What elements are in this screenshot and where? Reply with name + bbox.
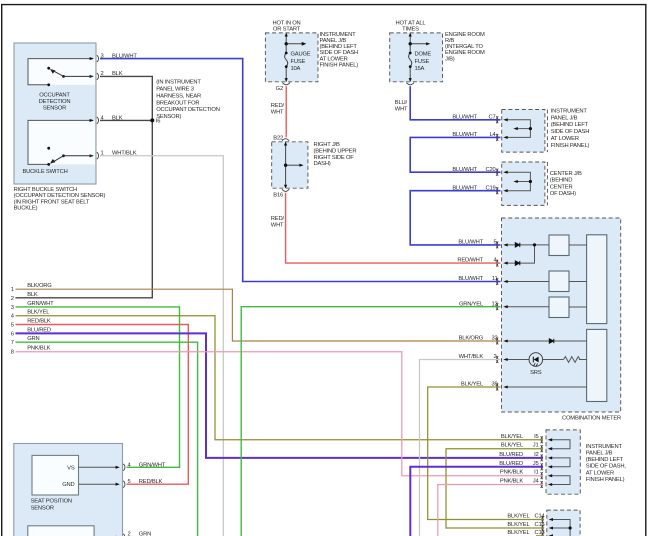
svg-text:RIGHT SIDE OF: RIGHT SIDE OF (314, 155, 355, 161)
connector G2 arc (282, 83, 290, 85)
svg-text:7: 7 (11, 340, 14, 346)
svg-text:HOT IN ON: HOT IN ON (272, 20, 300, 26)
svg-text:BLK/ORG: BLK/ORG (27, 283, 52, 289)
connector arcs C20 C19 (496, 169, 498, 194)
buckle switch contacts (28, 120, 93, 164)
connector arcs I5..J4 (541, 436, 543, 488)
svg-text:G2: G2 (276, 86, 283, 92)
svg-text:(IN RIGHT FRONT SEAT BELT: (IN RIGHT FRONT SEAT BELT (14, 199, 90, 205)
svg-text:BLU/WHT: BLU/WHT (452, 185, 477, 191)
svg-text:PNK/BLK: PNK/BLK (500, 470, 523, 476)
svg-text:C14: C14 (534, 514, 545, 520)
svg-text:3: 3 (101, 53, 104, 59)
svg-text:SIDE OF DASH: SIDE OF DASH (320, 50, 359, 56)
svg-text:BLU/WHT: BLU/WHT (452, 132, 477, 138)
svg-text:SIDE OF DASH,: SIDE OF DASH, (586, 464, 627, 470)
wire RED/BLK left5 to seat sensor GND (16, 325, 189, 485)
svg-text:2: 2 (493, 354, 496, 360)
svg-text:WHT: WHT (271, 109, 284, 115)
svg-text:(BEHIND LEFT: (BEHIND LEFT (586, 457, 624, 463)
occupant detection sensor switch (28, 59, 93, 85)
svg-text:8: 8 (11, 350, 14, 356)
svg-text:HARNESS, NEAR: HARNESS, NEAR (156, 93, 201, 99)
svg-text:SEAT POSITION: SEAT POSITION (31, 499, 72, 505)
svg-text:WHT/BLK: WHT/BLK (112, 151, 137, 157)
svg-text:1: 1 (11, 287, 14, 293)
svg-text:INSTRUMENT: INSTRUMENT (320, 32, 357, 38)
VS output arrow (79, 466, 120, 469)
center J/B box C20 C19 (502, 162, 545, 205)
svg-text:INSTRUMENT: INSTRUMENT (586, 444, 623, 450)
connector arcs pins 3 2 4 1 (97, 55, 99, 159)
svg-text:DOME: DOME (415, 52, 432, 58)
svg-text:ENGINE ROOM: ENGINE ROOM (445, 32, 485, 38)
connector B16 arc (282, 189, 289, 191)
svg-text:I5: I5 (534, 434, 538, 440)
connector arcs C14 C15 C13 (541, 516, 543, 536)
svg-text:SENSOR: SENSOR (31, 505, 54, 511)
wire WHT/BLK meter pin2 down (420, 360, 501, 536)
svg-text:(BEHIND: (BEHIND (550, 178, 572, 184)
svg-text:SENSOR: SENSOR (43, 105, 66, 111)
meter internal block 1 (549, 235, 569, 256)
GND output arrow (79, 483, 120, 486)
svg-text:CENTER J/B: CENTER J/B (550, 171, 582, 177)
svg-text:BLU/WHT: BLU/WHT (112, 53, 137, 59)
wire BLK/YEL meter pin39 to C14 (428, 387, 545, 520)
svg-text:10A: 10A (291, 66, 301, 72)
svg-text:BLK/YEL: BLK/YEL (501, 434, 524, 440)
svg-text:B16: B16 (273, 193, 283, 199)
svg-text:RED/BLK: RED/BLK (139, 479, 163, 485)
svg-text:BLK/YEL: BLK/YEL (501, 443, 524, 449)
svg-text:J/B): J/B) (445, 56, 455, 62)
svg-text:5: 5 (11, 323, 14, 329)
svg-text:SRS: SRS (530, 370, 542, 376)
svg-text:GRN: GRN (139, 532, 151, 536)
wire PNK/BLK J4 down (438, 485, 543, 536)
wire BLU/RED J5 down (410, 467, 543, 536)
svg-text:BLU/WHT: BLU/WHT (458, 240, 483, 246)
meter big block upper (587, 235, 607, 324)
svg-text:I1: I1 (534, 470, 538, 476)
junction node pin5/pin4 (533, 243, 536, 246)
svg-text:FINISH PANEL): FINISH PANEL) (320, 62, 359, 68)
svg-text:BLU/: BLU/ (395, 100, 408, 106)
svg-text:RED/WHT: RED/WHT (457, 258, 483, 264)
svg-text:1: 1 (101, 151, 104, 157)
svg-text:PANEL J/B: PANEL J/B (320, 38, 347, 44)
svg-text:BLU/WHT: BLU/WHT (452, 114, 477, 120)
svg-text:GAUGE: GAUGE (291, 52, 311, 58)
C7 L4 internals (506, 120, 531, 138)
connector B22 arc (282, 139, 289, 141)
svg-text:PNK/BLK: PNK/BLK (27, 346, 50, 352)
wire GRN/WHT left3 to seat sensor VS (16, 307, 180, 467)
gauge fuse internals (285, 34, 304, 81)
meter internal block 3 (549, 297, 569, 318)
svg-text:BREAKOUT FOR: BREAKOUT FOR (156, 100, 199, 106)
svg-text:PNK/BLK: PNK/BLK (500, 479, 523, 485)
svg-text:5: 5 (493, 240, 496, 246)
svg-text:DETECTION: DETECTION (39, 99, 71, 105)
svg-text:RIGHT J/B: RIGHT J/B (314, 142, 340, 148)
svg-text:L4: L4 (489, 132, 496, 138)
wire BLK/YEL left4 to I5 (16, 316, 544, 440)
svg-text:6: 6 (11, 331, 14, 337)
seat sensor connector arcs (123, 464, 125, 536)
wire BLU/WHT dome fuse to C7 (410, 86, 500, 120)
diode on pin4 line (515, 261, 520, 265)
buckle switch inner area (28, 120, 95, 164)
gauge fuse box (instrument panel J/B) (265, 33, 318, 82)
svg-text:RED/: RED/ (271, 103, 285, 109)
svg-text:RED/BLK: RED/BLK (27, 319, 51, 325)
svg-text:15A: 15A (415, 66, 425, 72)
svg-text:(BEHIND LEFT: (BEHIND LEFT (551, 122, 589, 128)
svg-text:FINISH PANEL): FINISH PANEL) (551, 143, 590, 149)
wire PNK/BLK left8 to I1 (16, 352, 544, 476)
center J/B box C14 C15 C13 (547, 510, 580, 536)
svg-text:PANEL J/B: PANEL J/B (551, 115, 578, 121)
svg-text:C19: C19 (485, 185, 495, 191)
svg-text:(INTERGAL TO: (INTERGAL TO (445, 44, 483, 50)
svg-text:OCCUPANT DETECTION: OCCUPANT DETECTION (156, 107, 220, 113)
right J/B internals (286, 143, 301, 188)
svg-text:BLU/RED: BLU/RED (499, 452, 523, 458)
svg-text:BLK/YEL: BLK/YEL (507, 530, 530, 536)
svg-text:BUCKLE): BUCKLE) (14, 206, 38, 212)
svg-text:GND: GND (62, 482, 74, 488)
wire BLK/YEL C13 stub (536, 535, 544, 536)
svg-text:R/B: R/B (445, 38, 454, 44)
svg-text:32: 32 (491, 336, 497, 342)
svg-text:RED/: RED/ (271, 216, 285, 222)
svg-text:RIGHT BUCKLE SWITCH: RIGHT BUCKLE SWITCH (14, 187, 77, 193)
svg-text:BLK/YEL: BLK/YEL (27, 310, 50, 316)
wire BLU/WHT C19 to meter pin5 (410, 191, 500, 245)
svg-text:C15: C15 (534, 522, 544, 528)
wire BLK pin2 to splice (16, 76, 153, 297)
svg-text:2: 2 (101, 71, 104, 77)
resistor (564, 357, 581, 363)
svg-text:(IN INSTRUMENT: (IN INSTRUMENT (156, 80, 201, 86)
svg-text:GRN/YEL: GRN/YEL (459, 301, 484, 307)
wire BLU/RED left6 to I2 (16, 333, 544, 458)
diode on pin32 line (549, 339, 554, 343)
connector arcs C7 L4 (496, 116, 498, 140)
wire GRN left7 to seat sensor pin2 (16, 342, 198, 536)
meter internal wiring pin5 pin4 (506, 245, 587, 387)
C14 C15 internals (551, 520, 570, 536)
svg-text:BLU/RED: BLU/RED (499, 461, 523, 467)
wire GRN/YEL meter pin12 down (241, 307, 500, 536)
svg-text:C13: C13 (534, 530, 544, 536)
svg-text:FUSE: FUSE (291, 59, 306, 65)
seat sensor inner module (32, 455, 79, 495)
svg-text:C7: C7 (488, 114, 495, 120)
instrument panel J/B box C7 L4 (502, 110, 545, 153)
svg-text:OR START: OR START (273, 26, 301, 32)
svg-text:4: 4 (11, 314, 15, 320)
dome fuse box (engine room R/B) (390, 33, 443, 82)
right J/B box (272, 142, 308, 188)
svg-text:BLU/WHT: BLU/WHT (452, 167, 477, 173)
svg-text:GRN/WHT: GRN/WHT (27, 301, 54, 307)
svg-text:(BEHIND UPPER: (BEHIND UPPER (314, 149, 357, 155)
svg-text:ENGINE ROOM: ENGINE ROOM (445, 50, 485, 56)
svg-text:39: 39 (491, 382, 497, 388)
svg-text:FINISH PANEL): FINISH PANEL) (586, 477, 625, 483)
splice I6 (150, 118, 154, 122)
pin entry arrows (503, 243, 507, 388)
svg-text:BUCKLE SWITCH: BUCKLE SWITCH (23, 169, 68, 175)
svg-text:B22: B22 (273, 135, 283, 141)
svg-text:BLK/YEL: BLK/YEL (507, 522, 530, 528)
svg-text:BLK: BLK (27, 292, 38, 298)
svg-text:INSTRUMENT: INSTRUMENT (551, 108, 588, 114)
right buckle switch block (occupant detection sensor) (14, 43, 96, 184)
dome fuse internals (409, 34, 428, 81)
svg-text:SIDE OF DASH: SIDE OF DASH (551, 129, 590, 135)
seat sensor inner module 2 (28, 526, 94, 536)
svg-text:VS: VS (67, 465, 75, 471)
svg-text:(OCCUPANT DETECTION SENSOR): (OCCUPANT DETECTION SENSOR) (14, 193, 106, 199)
svg-text:BLK/ORG: BLK/ORG (459, 336, 484, 342)
instrument panel J/B box I5 J1 I2 J5 I1 J4 (546, 430, 580, 494)
wire RED/WHT B16 to meter pin4 (286, 193, 501, 264)
svg-text:C20: C20 (485, 167, 495, 173)
svg-text:11: 11 (492, 276, 498, 282)
svg-text:WHT: WHT (395, 106, 408, 112)
svg-text:I2: I2 (534, 452, 538, 458)
svg-text:3: 3 (11, 305, 14, 311)
wire RED/WHT gauge fuse to B22 (285, 86, 287, 137)
svg-text:COMBINATION METER: COMBINATION METER (562, 415, 621, 421)
svg-text:BLU/WHT: BLU/WHT (458, 276, 483, 282)
svg-text:OF DASH): OF DASH) (550, 191, 576, 197)
svg-text:12: 12 (491, 301, 497, 307)
occupant detection sensor inner area (28, 59, 95, 85)
svg-text:2: 2 (11, 296, 14, 302)
wire BLU/WHT L4 to C20 (410, 137, 500, 172)
svg-text:WHT/BLK: WHT/BLK (459, 354, 484, 360)
svg-text:AT LOWER: AT LOWER (551, 136, 579, 142)
C20 C19 internals (506, 172, 531, 191)
svg-text:GRN/WHT: GRN/WHT (139, 462, 166, 468)
svg-text:J4: J4 (533, 479, 540, 485)
svg-text:FUSE: FUSE (415, 59, 430, 65)
svg-text:AT LOWER: AT LOWER (586, 470, 614, 476)
wire BLK/ORG left1 to meter pin32 (16, 289, 501, 341)
meter internal block 2 (549, 271, 569, 292)
I5..J4 internals (550, 440, 570, 485)
svg-text:HOT AT ALL: HOT AT ALL (396, 20, 427, 26)
svg-text:BLK: BLK (112, 115, 123, 121)
svg-text:BLK: BLK (112, 71, 123, 77)
SRS indicator LED (529, 353, 543, 367)
svg-text:PANEL J/B: PANEL J/B (586, 451, 613, 457)
svg-text:(BEHIND LEFT: (BEHIND LEFT (320, 44, 358, 50)
svg-text:BLU/RED: BLU/RED (27, 327, 51, 333)
svg-text:CENTER: CENTER (550, 184, 573, 190)
svg-text:AT LOWER: AT LOWER (320, 56, 348, 62)
svg-text:DASH): DASH) (314, 161, 331, 167)
svg-text:5: 5 (128, 479, 131, 485)
svg-text:I6: I6 (156, 119, 160, 125)
svg-text:GRN: GRN (27, 336, 39, 342)
svg-text:WHT: WHT (271, 223, 284, 229)
meter big block lower (587, 329, 607, 401)
svg-text:2: 2 (128, 532, 131, 536)
diode on pin5 line (515, 243, 520, 247)
combination meter box (502, 218, 621, 412)
svg-text:TIMES: TIMES (402, 26, 419, 32)
svg-text:J1: J1 (533, 443, 539, 449)
meter pin connector arcs (496, 242, 498, 391)
wire BLK pin4 to splice I6 (100, 119, 152, 121)
svg-text:OCCUPANT: OCCUPANT (39, 92, 70, 98)
wire WHT/BLK pin1 down (100, 156, 223, 536)
svg-text:BLK/YEL: BLK/YEL (507, 514, 530, 520)
seat position sensor box (14, 444, 123, 536)
svg-text:BLK/YEL: BLK/YEL (461, 382, 484, 388)
svg-text:J5: J5 (533, 461, 539, 467)
svg-text:PANEL WIRE 3: PANEL WIRE 3 (156, 87, 194, 93)
wire BLU/WHT pin3 to meter pin11 (100, 59, 501, 282)
dome fuse bottom connector arc (406, 83, 414, 85)
wire BLK/YEL J1 to C15 (446, 449, 544, 528)
